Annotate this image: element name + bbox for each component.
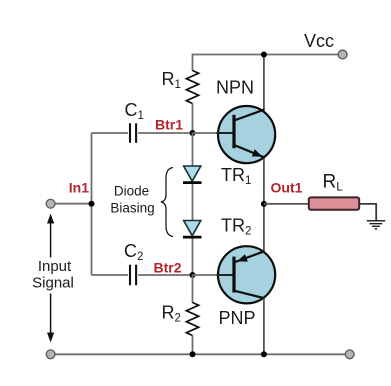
capacitor C2	[130, 265, 136, 286]
node Vcc junction	[261, 52, 267, 58]
wire diode branch upper lead	[192, 133, 194, 167]
svg-text:Btr1: Btr1	[155, 117, 183, 133]
wire In1 horizontal	[51, 203, 92, 205]
input signal arrow down	[50, 294, 52, 335]
svg-text:Out1: Out1	[271, 180, 303, 196]
wire Out1 to RL	[264, 203, 309, 205]
node Btr2	[190, 272, 196, 278]
wire R1 bottom lead	[192, 104, 194, 134]
diode D2	[183, 221, 202, 238]
terminal input	[46, 199, 55, 208]
node Out1	[261, 201, 267, 207]
wire between diodes	[192, 184, 194, 221]
wire R2 top lead	[192, 275, 194, 303]
wire bottom rail	[51, 353, 350, 355]
wire TR1 base lead	[193, 132, 235, 134]
terminal bottom right	[345, 350, 354, 359]
svg-text:Biasing: Biasing	[110, 200, 154, 215]
svg-text:PNP: PNP	[219, 308, 256, 328]
transistor TR1 NPN	[217, 106, 276, 163]
node TR2 collector bottom	[261, 351, 267, 357]
wire C2 right lead	[138, 274, 192, 276]
node Btr1	[190, 130, 196, 136]
wire C2 left lead	[92, 274, 129, 276]
wire C1 right lead	[138, 132, 192, 134]
svg-text:In1: In1	[69, 180, 89, 196]
wire R1 top lead	[192, 54, 194, 71]
resistor RL	[309, 197, 359, 209]
resistor R2	[186, 303, 198, 336]
wire TR2 base lead	[193, 274, 235, 276]
wire TR2 collector to rail	[263, 298, 265, 354]
svg-text:NPN: NPN	[216, 78, 254, 98]
node In1	[89, 201, 95, 207]
svg-text:Diode: Diode	[114, 184, 149, 199]
transistor TR2 PNP	[217, 246, 276, 303]
wire top rail Vcc	[193, 54, 342, 56]
svg-text:Vcc: Vcc	[304, 31, 334, 51]
svg-text:Input: Input	[38, 258, 72, 275]
svg-text:Btr2: Btr2	[154, 259, 182, 275]
wire TR1 collector	[263, 55, 265, 111]
svg-text:Signal: Signal	[32, 275, 74, 292]
wire R2 bottom lead	[192, 336, 194, 355]
wire left vertical input bus	[91, 133, 93, 275]
wire RL to ground	[359, 204, 376, 221]
capacitor C1	[130, 123, 136, 143]
input signal arrow up	[50, 222, 52, 258]
resistor R1	[186, 71, 198, 104]
wire diode branch lower lead	[192, 239, 194, 276]
wire C1 left lead	[92, 132, 129, 134]
brace diode biasing	[161, 168, 173, 237]
diode D1	[183, 166, 202, 183]
wire output vertical	[263, 159, 265, 252]
terminal bottom left	[46, 350, 55, 359]
terminal Vcc	[338, 50, 347, 59]
ground	[367, 221, 385, 229]
node R2 bottom	[190, 351, 196, 357]
